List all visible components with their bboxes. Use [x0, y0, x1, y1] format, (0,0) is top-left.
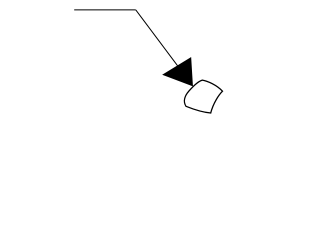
curled-page symbol: [184, 80, 222, 113]
arrowhead: [163, 58, 192, 86]
wire diagonal segment: [136, 10, 193, 86]
wire horizontal segment: [74, 9, 136, 11]
